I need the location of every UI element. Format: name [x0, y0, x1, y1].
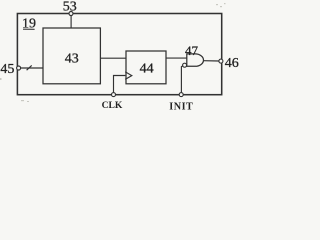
bus slash on wire 45 [27, 65, 32, 70]
block 43 [43, 28, 100, 84]
wire terminal 45 to block 43 [21, 67, 43, 69]
inverting bubble on AND gate INIT input [183, 63, 187, 67]
svg-text:INIT: INIT [169, 101, 193, 112]
svg-text:46: 46 [225, 56, 239, 71]
wire block 43 to block 44 [100, 57, 126, 59]
block 19 outer boundary [17, 14, 221, 95]
AND gate 47 [187, 54, 204, 66]
svg-text:43: 43 [65, 51, 79, 66]
svg-text:44: 44 [140, 61, 154, 76]
terminal CLK [112, 93, 116, 97]
clock wedge on block 44 [125, 72, 132, 80]
terminal INIT [179, 93, 183, 97]
underline of label 19 [23, 28, 35, 30]
wire terminal CLK to clock wedge [114, 76, 126, 93]
wire terminal 53 to block 43 [70, 15, 72, 28]
terminal 46 [219, 59, 223, 63]
svg-text:CLK: CLK [102, 100, 123, 111]
terminal 53 [69, 12, 73, 16]
wire AND gate output to terminal 46 [203, 60, 219, 62]
svg-text:47: 47 [185, 43, 199, 58]
wire block 44 to AND gate [166, 57, 187, 59]
wire terminal INIT to inverting bubble [181, 66, 183, 93]
scan speckles [0, 3, 226, 102]
block 44 (flip-flop) [126, 51, 166, 84]
terminal 45 [17, 66, 21, 70]
svg-text:45: 45 [0, 62, 14, 77]
svg-text:53: 53 [63, 0, 77, 15]
